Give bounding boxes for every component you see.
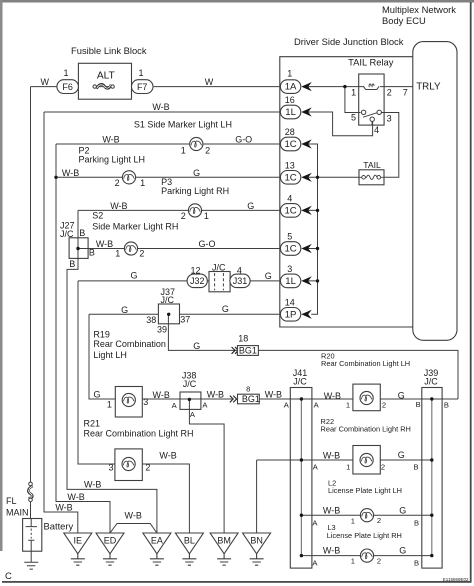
svg-text:BL: BL xyxy=(184,536,195,546)
svg-text:1: 1 xyxy=(351,516,355,525)
svg-text:W-B: W-B xyxy=(323,545,340,555)
svg-text:1: 1 xyxy=(204,211,209,221)
svg-text:E115869E02: E115869E02 xyxy=(443,577,469,582)
svg-text:13: 13 xyxy=(285,161,295,171)
svg-text:S1 Side Marker Light LH: S1 Side Marker Light LH xyxy=(134,119,232,129)
svg-text:Parking Light LH: Parking Light LH xyxy=(79,154,146,164)
svg-text:39: 39 xyxy=(157,325,167,335)
svg-text:J/C: J/C xyxy=(161,295,175,305)
svg-text:J/C: J/C xyxy=(293,376,307,386)
svg-text:S2: S2 xyxy=(92,211,103,221)
svg-text:5: 5 xyxy=(287,232,292,242)
svg-text:W-B: W-B xyxy=(153,390,170,400)
svg-text:Parking Light RH: Parking Light RH xyxy=(161,186,229,196)
svg-text:Multiplex Network: Multiplex Network xyxy=(382,4,456,15)
svg-text:Light LH: Light LH xyxy=(93,350,127,360)
svg-text:1: 1 xyxy=(63,68,68,78)
svg-text:2: 2 xyxy=(382,401,386,410)
svg-text:MAIN: MAIN xyxy=(6,508,29,518)
svg-text:W-B: W-B xyxy=(125,511,142,521)
svg-text:ALT: ALT xyxy=(97,71,115,82)
svg-text:1C: 1C xyxy=(284,244,296,255)
svg-text:IE: IE xyxy=(74,536,83,546)
svg-text:2: 2 xyxy=(381,463,385,472)
svg-text:1: 1 xyxy=(115,248,120,258)
svg-text:W-B: W-B xyxy=(324,391,341,401)
svg-text:Body ECU: Body ECU xyxy=(382,15,426,26)
svg-text:G: G xyxy=(399,545,406,555)
svg-text:F6: F6 xyxy=(62,82,73,92)
svg-text:G: G xyxy=(222,304,229,314)
svg-text:G: G xyxy=(193,341,200,351)
svg-text:38: 38 xyxy=(146,315,156,325)
svg-text:Rear Combination Light RH: Rear Combination Light RH xyxy=(84,428,194,438)
svg-text:1L: 1L xyxy=(285,276,296,287)
svg-text:3: 3 xyxy=(143,397,148,407)
svg-text:J/C: J/C xyxy=(424,376,438,386)
svg-text:G-O: G-O xyxy=(235,134,252,144)
svg-text:4: 4 xyxy=(287,194,292,204)
svg-text:License Plate Light RH: License Plate Light RH xyxy=(327,531,402,540)
svg-text:W-B: W-B xyxy=(62,168,79,178)
svg-text:4: 4 xyxy=(374,125,379,135)
svg-text:B: B xyxy=(79,228,85,238)
svg-text:B: B xyxy=(89,248,95,258)
svg-text:1: 1 xyxy=(140,178,145,188)
svg-text:2: 2 xyxy=(205,146,210,156)
svg-text:1C: 1C xyxy=(284,139,296,150)
svg-text:3: 3 xyxy=(387,113,392,123)
svg-text:1: 1 xyxy=(181,146,186,156)
svg-text:14: 14 xyxy=(285,298,295,308)
svg-text:W-B: W-B xyxy=(207,390,224,400)
svg-text:B: B xyxy=(414,558,419,567)
svg-text:7: 7 xyxy=(403,87,408,97)
svg-text:Rear Combination Light RH: Rear Combination Light RH xyxy=(321,425,411,434)
svg-text:Fusible Link Block: Fusible Link Block xyxy=(71,45,147,56)
svg-text:TAIL Relay: TAIL Relay xyxy=(348,56,394,67)
svg-text:W-B: W-B xyxy=(55,503,72,513)
svg-text:Rear Combination: Rear Combination xyxy=(93,339,166,349)
svg-text:W-B: W-B xyxy=(110,201,127,211)
svg-text:1: 1 xyxy=(351,87,356,97)
svg-text:BG1: BG1 xyxy=(239,346,257,356)
svg-text:1L: 1L xyxy=(285,107,296,118)
svg-text:2: 2 xyxy=(387,87,392,97)
svg-text:W-B: W-B xyxy=(323,506,340,516)
svg-text:W-B: W-B xyxy=(84,480,101,490)
svg-text:2: 2 xyxy=(145,463,150,473)
svg-text:FL: FL xyxy=(6,496,17,506)
svg-text:1: 1 xyxy=(138,68,143,78)
svg-text:5: 5 xyxy=(351,112,356,122)
svg-text:2: 2 xyxy=(181,211,186,221)
svg-text:J/C: J/C xyxy=(183,379,197,389)
svg-text:12: 12 xyxy=(190,265,200,275)
svg-text:W-B: W-B xyxy=(265,390,282,400)
svg-text:2: 2 xyxy=(115,178,120,188)
svg-text:C: C xyxy=(5,571,12,582)
svg-text:1: 1 xyxy=(287,68,292,78)
svg-text:B: B xyxy=(69,259,75,269)
svg-text:Driver Side Junction Block: Driver Side Junction Block xyxy=(294,36,404,47)
svg-text:License Plate Light LH: License Plate Light LH xyxy=(328,486,402,495)
svg-text:W-B: W-B xyxy=(96,239,113,249)
svg-text:G: G xyxy=(398,450,405,460)
svg-text:B: B xyxy=(414,519,419,528)
svg-text:ED: ED xyxy=(104,536,117,546)
svg-text:EA: EA xyxy=(151,536,163,546)
svg-text:R19: R19 xyxy=(93,329,110,339)
svg-text:J/C: J/C xyxy=(60,229,74,239)
svg-text:1P: 1P xyxy=(285,309,297,320)
svg-text:W-B: W-B xyxy=(102,134,119,144)
svg-text:G: G xyxy=(121,305,128,315)
svg-text:Side Marker Light RH: Side Marker Light RH xyxy=(92,222,178,232)
svg-text:B: B xyxy=(413,462,418,471)
svg-text:28: 28 xyxy=(285,127,295,137)
svg-text:2: 2 xyxy=(377,556,381,565)
svg-text:1A: 1A xyxy=(285,82,297,93)
svg-text:4: 4 xyxy=(237,266,242,276)
svg-text:J32: J32 xyxy=(190,276,205,286)
svg-text:16: 16 xyxy=(285,95,295,105)
svg-text:G: G xyxy=(193,168,200,178)
svg-text:W: W xyxy=(205,77,214,87)
svg-text:1: 1 xyxy=(107,400,112,410)
svg-text:B: B xyxy=(416,400,421,409)
svg-text:1C: 1C xyxy=(284,206,296,217)
svg-text:J/C: J/C xyxy=(212,262,226,272)
svg-text:W-B: W-B xyxy=(323,450,340,460)
svg-text:F7: F7 xyxy=(137,82,148,92)
svg-text:1: 1 xyxy=(346,463,350,472)
svg-text:J31: J31 xyxy=(233,276,248,286)
svg-text:TAIL: TAIL xyxy=(363,160,381,170)
svg-text:R21: R21 xyxy=(84,418,101,428)
svg-text:18: 18 xyxy=(238,334,248,344)
svg-text:W-B: W-B xyxy=(159,451,176,461)
svg-text:BG1: BG1 xyxy=(242,394,260,404)
svg-text:37: 37 xyxy=(180,314,190,324)
svg-text:B: B xyxy=(444,401,449,410)
svg-text:W-B: W-B xyxy=(67,492,84,502)
svg-text:G: G xyxy=(247,201,254,211)
svg-text:W-B: W-B xyxy=(152,102,169,112)
svg-text:1C: 1C xyxy=(284,172,296,183)
svg-text:3: 3 xyxy=(287,264,292,274)
svg-text:1: 1 xyxy=(351,557,355,566)
svg-text:BN: BN xyxy=(250,536,263,546)
svg-text:Battery: Battery xyxy=(44,521,74,532)
svg-text:G: G xyxy=(265,271,272,281)
svg-text:G: G xyxy=(130,271,137,281)
svg-text:8: 8 xyxy=(246,385,250,394)
svg-text:G: G xyxy=(398,390,405,400)
svg-text:1: 1 xyxy=(346,401,350,410)
svg-text:G-O: G-O xyxy=(199,239,216,249)
svg-text:TRLY: TRLY xyxy=(416,82,441,93)
svg-text:3: 3 xyxy=(108,463,113,473)
svg-text:G: G xyxy=(93,390,100,400)
svg-text:BM: BM xyxy=(217,536,231,546)
svg-text:Rear Combination Light LH: Rear Combination Light LH xyxy=(321,359,410,368)
svg-text:W: W xyxy=(40,77,49,87)
svg-text:G: G xyxy=(399,506,406,516)
svg-text:2: 2 xyxy=(139,249,144,259)
svg-text:2: 2 xyxy=(377,516,381,525)
